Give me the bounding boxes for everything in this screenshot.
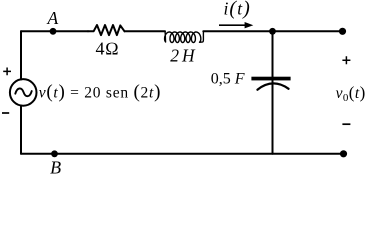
output polarity plus <box>342 56 350 64</box>
wire bottom rail <box>21 153 344 155</box>
svg-text:2H: 2H <box>170 45 197 65</box>
wire capacitor branch <box>272 31 274 154</box>
svg-text:0,5 F: 0,5 F <box>211 71 245 88</box>
voltage source circle <box>10 79 37 106</box>
capacitor curved plate <box>257 83 288 89</box>
svg-text:v0(t): v0(t) <box>336 83 366 104</box>
source polarity minus <box>2 112 9 114</box>
voltage source sine wave <box>15 88 31 96</box>
terminal dot bottom right <box>340 150 347 157</box>
svg-text:A: A <box>46 8 58 28</box>
inductor L 2H coil <box>165 31 204 42</box>
wire top rail <box>21 30 343 32</box>
source polarity plus <box>3 68 11 76</box>
svg-text:v(t) = 20 sen (2t): v(t) = 20 sen (2t) <box>39 82 161 103</box>
svg-text:i(t): i(t) <box>223 0 250 20</box>
node B dot <box>51 150 58 157</box>
resistor R 4ohm zigzag <box>88 25 125 35</box>
current arrow i(t) <box>219 24 246 26</box>
node A dot <box>50 28 57 35</box>
wire left rail <box>20 31 22 154</box>
svg-text:4Ω: 4Ω <box>95 39 119 59</box>
junction node dot at capacitor <box>269 28 276 35</box>
terminal dot top right <box>339 28 346 35</box>
capacitor flat plate <box>251 77 290 81</box>
output polarity minus <box>342 123 350 125</box>
svg-text:B: B <box>50 157 61 177</box>
